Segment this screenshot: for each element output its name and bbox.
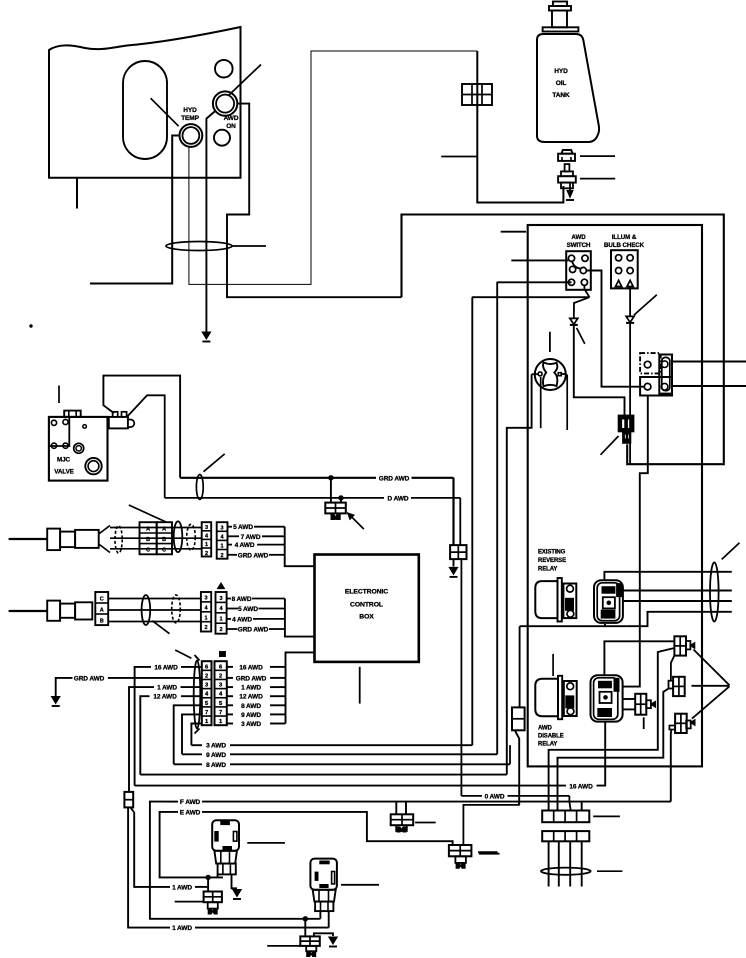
output plug 3: [675, 714, 687, 733]
solenoid 2 mid section: [313, 890, 336, 902]
svg-text:12 AWD: 12 AWD: [239, 694, 263, 701]
leader to main connector wrap: [175, 650, 191, 658]
sensor 1 body: [47, 529, 60, 551]
svg-text:ON: ON: [226, 123, 236, 130]
wire 8 AWD sensor2: [227, 598, 231, 600]
svg-text:8 AWD: 8 AWD: [241, 703, 261, 710]
svg-text:VALVE: VALVE: [54, 469, 74, 476]
wire 4 AWD sensor2: [227, 618, 231, 620]
AWD indicator lamp: [535, 359, 566, 390]
wire 9 AWD up to switch: [496, 282, 498, 754]
svg-text:A: A: [146, 527, 150, 533]
valve leader tick: [58, 386, 60, 404]
wire relay block top to right edge: [672, 361, 746, 363]
fuse block 3: [395, 802, 397, 815]
svg-text:16 AWD: 16 AWD: [154, 664, 178, 671]
wire row7 to 3 AWD: [191, 724, 201, 746]
key loop inline plug: [618, 415, 634, 432]
leader arrow to tap connector: [348, 513, 364, 529]
tank body: [537, 34, 599, 142]
svg-text:GRD AWD: GRD AWD: [74, 675, 105, 682]
harness wires below: [548, 841, 550, 886]
wire 1 AWD row right: [227, 686, 233, 688]
wire D AWD: [165, 497, 384, 499]
harness ellipse on GRD/D pair: [196, 475, 203, 500]
wire switch feed: [472, 296, 590, 298]
diode below AWD switch: [570, 318, 578, 324]
solenoid 1 mid section: [214, 851, 237, 864]
ellipse stub: [233, 245, 267, 247]
svg-text:HYD: HYD: [554, 68, 568, 75]
svg-text:DISABLE: DISABLE: [538, 734, 564, 740]
sender leader tick: [580, 178, 615, 180]
disable relay can: [535, 679, 558, 717]
harness wrap ellipse bottom: [541, 868, 591, 875]
harness ellipse leader: [597, 870, 622, 872]
svg-text:2: 2: [205, 625, 208, 631]
leader to GRD/D ellipse: [204, 454, 225, 472]
wire HYD TEMP sender to tank connector: [189, 51, 477, 284]
harness ellipse on panel wires: [166, 242, 232, 251]
svg-text:GRD AWD: GRD AWD: [238, 552, 269, 559]
svg-text:BOX: BOX: [359, 614, 374, 621]
svg-text:E AWD: E AWD: [180, 809, 201, 816]
relay block contact bar: [659, 355, 672, 394]
junction dot D AWD tap: [339, 496, 343, 500]
ground below connector: [453, 559, 455, 566]
svg-text:B: B: [100, 619, 104, 625]
svg-text:C: C: [100, 597, 104, 603]
tank grommet fitting: [561, 150, 572, 154]
panel circle lower: [214, 130, 230, 146]
wire 3 AWD up to switch feed: [471, 297, 473, 745]
wire relay block bottom to right edge: [672, 385, 746, 387]
svg-text:9 AWD: 9 AWD: [206, 752, 226, 759]
marker above sensor 2 connector: [218, 583, 225, 589]
svg-text:C: C: [162, 548, 166, 554]
lamp stub wire B: [566, 375, 568, 431]
bulb check triangles: [616, 280, 622, 286]
wire HYD TEMP left terminal down to stub end: [90, 136, 178, 284]
wire dot to fuse2: [304, 919, 306, 937]
leader to HYD TEMP: [151, 98, 179, 126]
wire 7 AWD: [228, 535, 240, 537]
wire switch mid-right pin to relay block: [586, 271, 644, 387]
wire socket top: [604, 572, 731, 581]
wire socket mid1: [622, 590, 732, 592]
svg-text:7: 7: [205, 710, 208, 716]
sensor 2 dashed ellipse: [172, 595, 181, 623]
AWD ON indicator: [213, 91, 237, 115]
fuse block 2: [300, 936, 320, 946]
tank harness grid connector: [462, 84, 492, 105]
wire 12 AWD row right: [227, 695, 233, 697]
panel gauge stadium cutout: [123, 61, 167, 159]
wire 12 AWD row4 left: [181, 695, 202, 697]
disable relay leader: [552, 654, 554, 676]
valve port circles: [51, 420, 56, 425]
svg-text:3 AWD: 3 AWD: [241, 721, 261, 728]
solenoid 1 body: [212, 820, 239, 851]
instrument panel outline: [49, 27, 241, 178]
tank cap tube: [552, 11, 567, 28]
solenoid 2 base: [315, 902, 333, 912]
svg-text:EXISTING: EXISTING: [538, 550, 566, 556]
HYD TEMP indicator: [180, 124, 203, 147]
svg-text:1 AWD: 1 AWD: [172, 925, 192, 932]
sensor 1 lead: [9, 538, 48, 540]
leader to sensor 1 block: [129, 505, 166, 522]
junction dot solenoid2 feed: [303, 917, 307, 921]
disable relay socket: [591, 675, 623, 721]
wide connector left tick: [478, 851, 498, 853]
leader to AWD ON: [229, 65, 262, 96]
wire 0 AWD into connector: [569, 796, 570, 811]
wire plug2 to wide conn cell2: [558, 689, 669, 811]
svg-text:SWITCH: SWITCH: [567, 242, 591, 249]
svg-text:GRD AWD: GRD AWD: [236, 675, 267, 682]
lamp stub wire A: [540, 377, 542, 428]
svg-text:REVERSE: REVERSE: [538, 558, 566, 564]
wire plug1 to plug2 chain: [671, 656, 675, 681]
tank temp sender: [565, 164, 570, 171]
svg-text:7: 7: [219, 710, 222, 716]
svg-text:C: C: [146, 548, 150, 554]
svg-text:3: 3: [205, 683, 209, 689]
inline fuse on disable feed: [519, 626, 521, 707]
leader to switch diode: [577, 328, 585, 344]
svg-text:2: 2: [219, 673, 222, 679]
fuse 2 leader tick: [267, 945, 300, 947]
main connector harness wrap: [194, 661, 201, 729]
output plug 2: [673, 677, 685, 696]
wire GRD AWD sensor2: [227, 628, 238, 630]
MJC valve body: [49, 417, 108, 481]
main connector right column: [215, 661, 227, 725]
wire F bus drop to cell4: [581, 802, 583, 811]
svg-text:4: 4: [219, 692, 223, 698]
svg-text:12 AWD: 12 AWD: [153, 694, 177, 701]
ground below AWD ON wire: [202, 332, 211, 339]
sensor 2 bundle to ECB: [285, 599, 315, 637]
aux plug by disable relay: [635, 694, 646, 715]
reverse relay contact bar: [563, 584, 576, 619]
svg-text:RELAY: RELAY: [538, 742, 557, 748]
leader tick left of sender wire: [441, 156, 477, 158]
svg-text:4: 4: [205, 692, 209, 698]
switch bottom-right pin zigzag: [584, 285, 589, 297]
svg-text:2: 2: [205, 673, 208, 679]
wire row6 to 9 AWD: [182, 714, 202, 754]
lamp right terminal: [558, 373, 561, 376]
fuse block 1: [204, 892, 222, 903]
svg-text:8 AWD: 8 AWD: [232, 596, 252, 603]
switch pin circles: [568, 255, 574, 261]
svg-text:5 AWD: 5 AWD: [238, 606, 258, 613]
leader to bulb check diode: [634, 295, 657, 315]
wire GRD AWD sensor1: [228, 554, 238, 556]
sensor 2 lead: [9, 610, 48, 612]
sensor 1 splay: [99, 526, 110, 535]
wide connector lower block: [542, 831, 589, 841]
junction dot GRD AWD tap: [329, 476, 333, 480]
wire AWD ON right to key loop: [227, 104, 402, 298]
wire 4 AWD: [228, 544, 233, 546]
svg-text:8 AWD: 8 AWD: [206, 762, 226, 769]
wire GRD AWD: [180, 477, 376, 479]
panel circle top-right: [215, 60, 233, 78]
wire 16 AWD to disable socket: [597, 722, 606, 786]
bulb check connector: [611, 250, 638, 288]
svg-text:5: 5: [205, 701, 209, 707]
svg-text:1: 1: [205, 615, 208, 621]
sensor 1 bundle to ECB: [285, 527, 315, 567]
wires disable socket to aux plug: [623, 698, 636, 700]
bulb check circles: [616, 255, 622, 261]
wire key loop: [402, 215, 724, 465]
fuse 3 leader tick: [415, 822, 436, 824]
MJC valve ground loop: [103, 376, 180, 478]
wire 5 AWD: [228, 526, 233, 528]
inline connector on GRD/D tap: [330, 478, 332, 503]
reverse relay socket: [594, 580, 623, 623]
valve top tabs: [64, 411, 81, 417]
wire AWD ON left to ground: [206, 111, 214, 332]
svg-text:1 AWD: 1 AWD: [157, 685, 177, 692]
svg-text:6: 6: [219, 664, 223, 670]
wide connector upper block: [542, 811, 589, 823]
sensor 1 letter block: [140, 522, 157, 554]
switch wiper arc: [572, 261, 581, 268]
wire socket bottom run: [520, 624, 605, 626]
plug2 fan line: [692, 685, 730, 687]
aux plug leader: [643, 717, 645, 729]
solenoid 1 ground: [233, 890, 242, 897]
solenoid 2 leader: [341, 884, 379, 886]
svg-text:4: 4: [205, 605, 209, 611]
tank neck flange: [543, 27, 579, 31]
disable relay contact bar: [564, 681, 577, 716]
sensor 2 pin columns: [201, 592, 211, 632]
stray dot: [30, 325, 32, 327]
lamp left terminal: [538, 372, 542, 376]
wire 9 AWD row right: [227, 713, 233, 715]
svg-text:2: 2: [205, 551, 208, 557]
panel mounting tick: [76, 178, 78, 209]
svg-text:D AWD: D AWD: [388, 495, 409, 502]
wire solenoid to D AWD: [127, 395, 164, 498]
ground GRD AWD left: [51, 697, 60, 704]
leader to key loop plug: [601, 436, 619, 455]
wire row5 to 8 AWD: [174, 705, 202, 764]
plug3 fan line: [692, 686, 730, 718]
sensor 1 wires: [110, 527, 202, 529]
wide connector upper leader: [593, 815, 620, 817]
wire fuse 4 feed: [463, 802, 519, 845]
svg-text:3 AWD: 3 AWD: [206, 743, 226, 750]
GRD/D 2x2 connector: [450, 545, 466, 559]
solenoid 1 terminals: [217, 874, 219, 877]
svg-text:BULB CHECK: BULB CHECK: [604, 242, 645, 249]
tank cap stem: [553, 2, 567, 7]
wire 8AWD link up: [509, 745, 511, 764]
tank cap flange: [549, 6, 571, 11]
relay block lower section: [640, 377, 672, 396]
wire fuse to 1 AWD upper: [131, 807, 171, 887]
svg-text:A: A: [100, 608, 104, 614]
marker square above connector: [220, 652, 226, 657]
wire relay block to disable socket: [623, 396, 648, 687]
sensor 2 solid ellipse: [142, 595, 151, 625]
fuse block 4: [449, 845, 472, 856]
wire F AWD left: [166, 801, 178, 803]
leader to sensor 2 ellipse: [152, 621, 169, 634]
wire 0 AWD: [461, 795, 482, 797]
wire 16 AWD bus bottom: [135, 785, 566, 787]
svg-text:GRD AWD: GRD AWD: [379, 475, 410, 482]
wire switch bottom-left pin: [497, 281, 572, 283]
svg-text:5: 5: [219, 701, 223, 707]
relay block dashed section: [640, 353, 661, 373]
reverse relay can: [535, 581, 557, 618]
svg-text:5 AWD: 5 AWD: [233, 524, 253, 531]
solenoid 1 leader: [247, 842, 285, 844]
svg-text:16 AWD: 16 AWD: [569, 783, 593, 790]
sender ground: [567, 191, 573, 198]
svg-text:4 AWD: 4 AWD: [232, 616, 252, 623]
leader above lamp: [549, 332, 551, 352]
wire socket mid2: [622, 600, 732, 602]
svg-text:AWD: AWD: [224, 115, 239, 122]
electronic control box: [315, 555, 419, 662]
wire dot to fuse1: [207, 877, 209, 891]
wire 3 AWD bus: [191, 744, 202, 746]
plug2 left attach: [669, 681, 674, 689]
fuse 1 leader tick: [175, 901, 204, 903]
leader tick to harness box: [501, 231, 526, 233]
svg-text:1 AWD: 1 AWD: [241, 685, 261, 692]
svg-text:ILLUM &: ILLUM &: [612, 234, 637, 241]
sensor 2 letter block: [95, 592, 108, 625]
wire GRD AWD down to connector: [452, 478, 454, 545]
plug3 right attach: [686, 721, 691, 729]
svg-text:AWD: AWD: [571, 234, 586, 241]
svg-text:B: B: [146, 537, 150, 543]
svg-text:A: A: [162, 527, 166, 533]
diode below bulb check: [626, 316, 634, 322]
svg-text:0 AWD: 0 AWD: [485, 793, 505, 800]
svg-text:AWD: AWD: [538, 726, 552, 732]
wire loop to AWD switch via diode: [574, 325, 625, 416]
AWD switch connector: [566, 251, 591, 290]
svg-text:B: B: [162, 537, 166, 543]
svg-text:F AWD: F AWD: [180, 799, 201, 806]
sensor 1 dashed ellipse: [115, 526, 122, 553]
solenoid 2 terminals: [319, 911, 321, 919]
wire F AWD bus: [202, 801, 671, 803]
solenoid 2 body: [310, 859, 337, 890]
plug1 right attach: [686, 641, 691, 649]
svg-text:HYD: HYD: [183, 107, 197, 114]
wire E AWD right to fuse4: [202, 812, 453, 845]
wire 8 AWD bus: [174, 763, 202, 765]
wire D AWD continues down: [460, 559, 462, 796]
svg-text:TEMP: TEMP: [181, 115, 199, 122]
harness boundary box: [528, 225, 702, 766]
sensor 1 solid ellipse: [174, 521, 183, 552]
svg-text:1 AWD: 1 AWD: [172, 884, 192, 891]
wire F AWD to solenoid2: [150, 802, 321, 919]
wire 5 AWD sensor2: [227, 608, 238, 610]
wire 12 AWD bus: [140, 774, 507, 776]
grommet leader tick: [580, 155, 615, 157]
leader to right ellipse: [722, 543, 740, 560]
svg-text:9 AWD: 9 AWD: [241, 712, 261, 719]
solenoid 1 base: [218, 864, 236, 875]
output plug 1: [674, 636, 686, 655]
svg-text:OIL: OIL: [556, 80, 567, 87]
wire GRD AWD row2 left: [108, 677, 202, 679]
wire 9 AWD bus: [182, 753, 202, 755]
svg-text:3: 3: [219, 683, 223, 689]
wire 16 AWD row right: [227, 666, 233, 668]
wire 1 AWD row3 left: [181, 686, 202, 688]
leader below ECB: [359, 667, 361, 704]
wire plug3 to F bus: [670, 730, 673, 802]
harness ellipse right side: [710, 562, 719, 621]
svg-text:CONTROL: CONTROL: [350, 602, 383, 609]
fuse 4 leader tick: [479, 853, 500, 855]
svg-text:ELECTRONIC: ELECTRONIC: [345, 589, 388, 596]
svg-text:4 AWD: 4 AWD: [235, 542, 255, 549]
sender ground lead: [569, 183, 571, 191]
svg-text:1: 1: [220, 617, 223, 623]
svg-text:7 AWD: 7 AWD: [241, 534, 261, 541]
wire E AWD left: [174, 811, 178, 813]
main connector left column: [202, 661, 212, 725]
wire switch top-left pin: [511, 259, 568, 261]
valve solenoid: [109, 417, 128, 429]
svg-text:16 AWD: 16 AWD: [239, 664, 263, 671]
wire 16 AWD row1 left: [181, 666, 202, 668]
inline fuse on 1 AWD: [124, 792, 133, 808]
svg-text:TANK: TANK: [552, 92, 570, 99]
wire D AWD down to connector: [459, 498, 461, 545]
sensor 2 wires: [108, 598, 201, 600]
svg-text:6: 6: [205, 664, 209, 670]
svg-text:3: 3: [220, 596, 223, 602]
svg-text:GRD AWD: GRD AWD: [238, 627, 269, 634]
svg-text:2: 2: [220, 627, 223, 633]
sensor 1 dashed ellipse 2: [187, 524, 196, 550]
ECB bundle right side: [286, 652, 315, 723]
junction dot solenoid1 feed: [206, 875, 210, 879]
wire bulb check to loop: [629, 287, 631, 317]
svg-text:2: 2: [221, 553, 224, 559]
wire 8 AWD row right: [227, 704, 233, 706]
wire plug1 to wide conn cell1: [549, 648, 675, 811]
sensor 1 pin columns: [202, 522, 212, 556]
wire disable socket top to plug1: [604, 641, 674, 675]
svg-text:RELAY: RELAY: [538, 567, 557, 573]
sensor 2 body: [47, 601, 60, 621]
solenoid 2 ground bracket: [314, 933, 333, 936]
lamp left wire to 12AWD bus: [507, 374, 532, 774]
svg-text:MJC: MJC: [57, 457, 71, 464]
plug3 left attach: [669, 726, 675, 730]
svg-text:3: 3: [205, 596, 208, 602]
wire GRD AWD row right: [227, 677, 233, 679]
